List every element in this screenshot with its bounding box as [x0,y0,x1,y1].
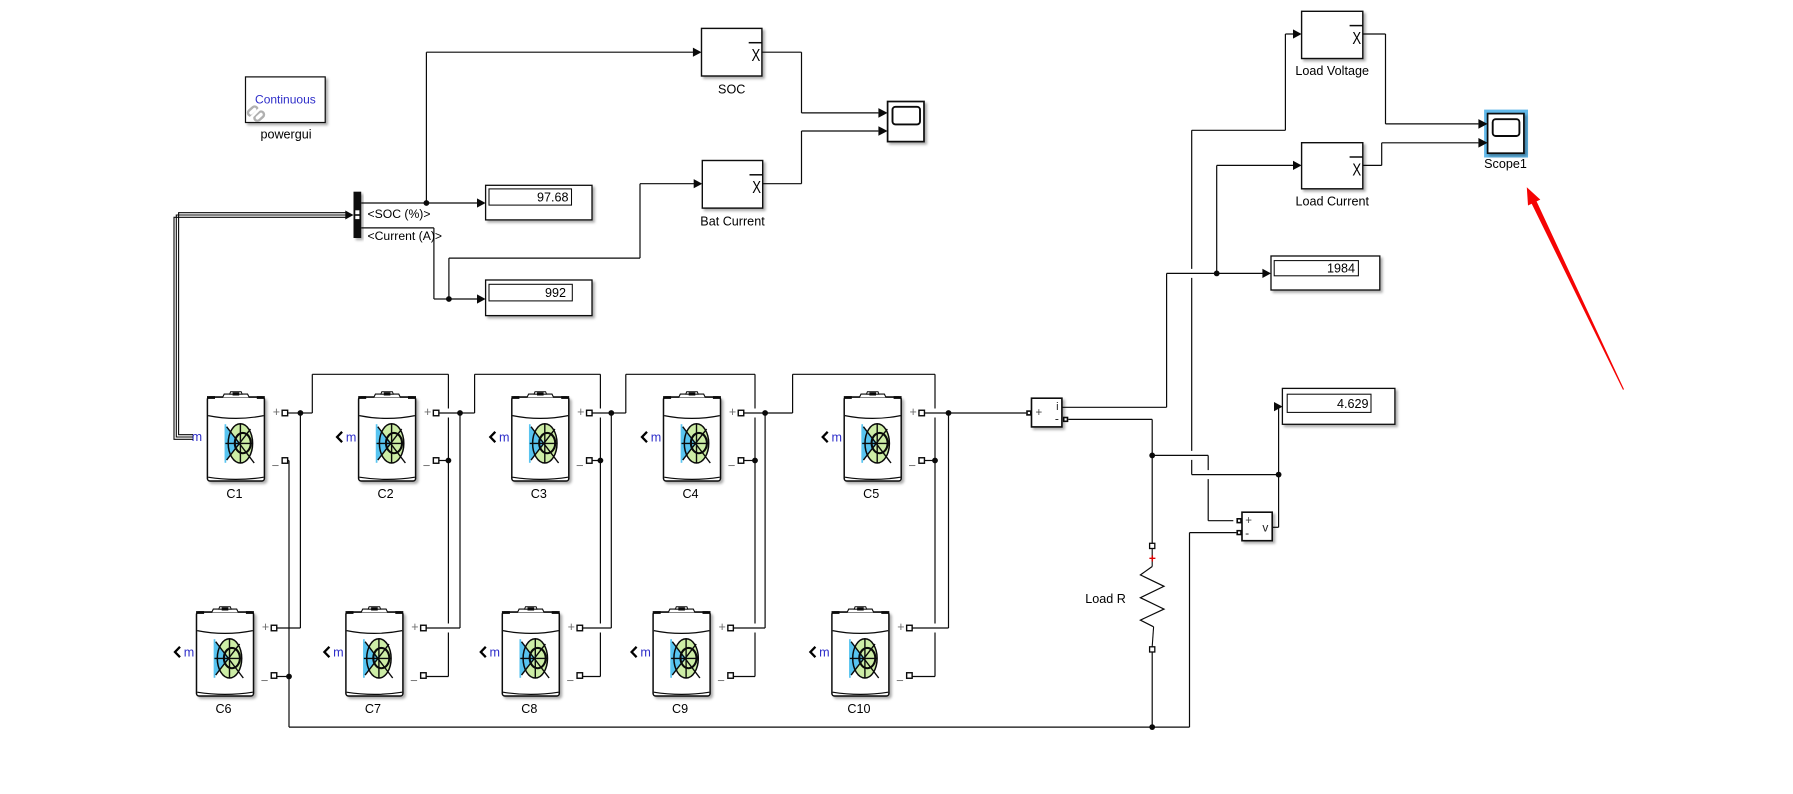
svg-text:−: − [717,673,725,688]
svg-text:−: − [567,673,575,688]
svg-text:m: m [490,645,501,659]
svg-text:−: − [272,458,280,473]
svg-text:C8: C8 [521,702,537,716]
svg-text:+: + [910,405,917,419]
svg-text:+: + [273,405,280,419]
svg-text:C3: C3 [531,487,547,501]
svg-text:C5: C5 [863,487,879,501]
svg-text:+: + [577,405,584,419]
svg-text:C10: C10 [847,702,870,716]
svg-text:m: m [192,430,203,444]
svg-text:+: + [424,405,431,419]
svg-text:v: v [1262,520,1268,534]
svg-text:m: m [346,430,357,444]
svg-text:+: + [718,620,725,634]
svg-text:m: m [819,645,830,659]
svg-text:m: m [640,645,651,659]
svg-text:Bat Current: Bat Current [700,215,765,229]
svg-text:C2: C2 [378,487,394,501]
svg-text:C7: C7 [365,702,381,716]
svg-text:X: X [752,177,761,197]
svg-text:m: m [651,430,662,444]
svg-text:−: − [908,458,916,473]
svg-text:+: + [1036,407,1043,419]
svg-text:C6: C6 [215,702,231,716]
svg-text:X: X [1352,28,1361,48]
svg-text:Load Current: Load Current [1295,194,1369,208]
svg-text:X: X [752,45,761,65]
svg-text:C4: C4 [682,487,698,501]
svg-text:<Current (A)>: <Current (A)> [368,229,443,243]
svg-text:−: − [896,673,904,688]
svg-text:SOC: SOC [718,82,745,96]
svg-text:4.629: 4.629 [1337,397,1369,411]
svg-text:<SOC (%)>: <SOC (%)> [368,207,431,221]
svg-text:1984: 1984 [1327,262,1355,276]
svg-text:−: − [728,458,736,473]
svg-text:powergui: powergui [260,128,311,142]
svg-text:+: + [1149,552,1156,566]
svg-text:+: + [262,620,269,634]
svg-text:m: m [184,645,195,659]
svg-text:m: m [831,430,842,444]
svg-text:Load R: Load R [1085,592,1126,606]
svg-text:Continuous: Continuous [255,92,316,106]
svg-text:Load Voltage: Load Voltage [1295,64,1369,78]
svg-text:-: - [1245,526,1249,540]
svg-text:+: + [568,620,575,634]
svg-text:−: − [261,673,269,688]
svg-text:992: 992 [545,286,566,300]
svg-text:-: - [1055,412,1059,426]
svg-text:97.68: 97.68 [537,191,569,205]
svg-text:−: − [576,458,584,473]
svg-text:+: + [729,405,736,419]
svg-text:m: m [333,645,344,659]
svg-text:C9: C9 [672,702,688,716]
svg-text:+: + [411,620,418,634]
svg-text:−: − [410,673,418,688]
svg-text:Scope1: Scope1 [1484,157,1527,171]
svg-text:+: + [897,620,904,634]
svg-text:C1: C1 [226,487,242,501]
svg-text:−: − [423,458,431,473]
svg-text:m: m [499,430,510,444]
svg-text:X: X [1352,159,1361,179]
